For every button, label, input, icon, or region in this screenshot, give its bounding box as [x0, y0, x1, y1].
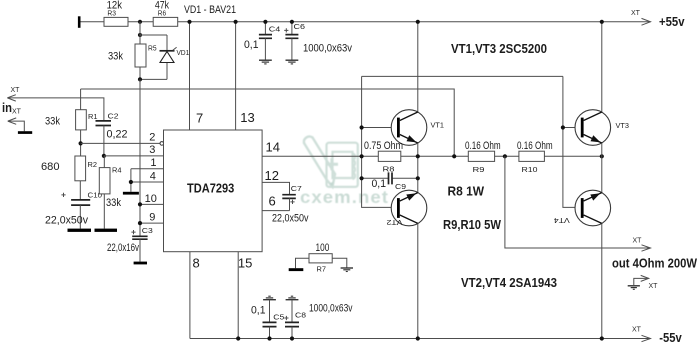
- junction dot pin7 rail: [187, 20, 191, 24]
- junction dot pin9: [138, 221, 142, 225]
- wire output: [505, 156, 651, 248]
- capacitor C9: [362, 177, 418, 179]
- svg-text:3: 3: [149, 144, 155, 156]
- svg-text:R5: R5: [148, 44, 157, 53]
- svg-text:VT1: VT1: [431, 120, 445, 129]
- WATERMARK: [300, 137, 389, 207]
- arrow -55v: [642, 335, 651, 341]
- svg-text:in: in: [2, 100, 12, 115]
- svg-text:22,0x16v: 22,0x16v: [107, 242, 139, 254]
- wire R9-R10: [495, 155, 519, 157]
- node R5 top: [138, 33, 142, 37]
- capacitor C7: [282, 195, 296, 199]
- svg-text:R3: R3: [107, 8, 116, 17]
- svg-text:22,0x50v: 22,0x50v: [272, 213, 309, 225]
- wire pin15: [237, 252, 239, 339]
- wire rail R3-R6: [128, 21, 153, 23]
- transistor Q VT3: [575, 110, 611, 146]
- wire R1 to pin2 node: [80, 130, 82, 156]
- svg-text:8: 8: [193, 255, 200, 270]
- ground R7 right: [341, 268, 353, 272]
- svg-text:C7: C7: [291, 184, 302, 193]
- diode VD1: [166, 35, 168, 79]
- svg-text:33k: 33k: [45, 116, 60, 128]
- wire VT1 base: [362, 127, 397, 129]
- svg-text:C9: C9: [395, 182, 406, 191]
- wire VT1 collector: [417, 22, 419, 112]
- svg-text:VD1 - BAV21: VD1 - BAV21: [184, 4, 236, 16]
- resistor R5: [135, 44, 146, 67]
- svg-text:0.16 Ohm: 0.16 Ohm: [517, 140, 553, 152]
- junction dot R8 left: [360, 154, 364, 158]
- capacitor C3: [131, 230, 135, 234]
- svg-text:C2: C2: [108, 112, 119, 121]
- svg-text:1: 1: [150, 157, 156, 169]
- wire R7 left: [296, 258, 310, 268]
- junction dot feedback tap: [452, 154, 456, 158]
- capacitor C10: [61, 193, 65, 197]
- wire pin6: [262, 210, 289, 212]
- watermark logo pencil tip: [330, 182, 334, 187]
- ground C4: [259, 60, 272, 64]
- svg-text:C4: C4: [269, 25, 281, 34]
- junction dot VT3/VT4 emitters: [600, 154, 604, 158]
- svg-text:0,22: 0,22: [107, 129, 128, 141]
- arrow input: [7, 95, 15, 101]
- resistor R1: [80, 89, 82, 110]
- transistor Q VT4: [575, 190, 611, 226]
- svg-text:C8: C8: [295, 310, 306, 319]
- wire VT3 emitter: [601, 143, 603, 193]
- wire R4 to ground: [103, 194, 105, 229]
- wire R2 to C10: [79, 181, 81, 200]
- svg-text:13: 13: [240, 110, 254, 125]
- junction dot VT3 collector rail: [600, 20, 604, 24]
- feedback wire y89: [81, 89, 455, 156]
- junction dot C6: [290, 20, 294, 24]
- svg-text:XT: XT: [12, 109, 22, 116]
- svg-text:12: 12: [265, 168, 279, 183]
- wire R7 right: [332, 258, 347, 267]
- arrow output ground: [641, 275, 649, 281]
- wire R5 bottom: [140, 67, 167, 79]
- wire VT2 collector: [417, 223, 419, 338]
- wire bottom rail: [190, 338, 651, 340]
- svg-text:C3: C3: [142, 226, 153, 235]
- ground C6: [286, 60, 299, 64]
- plus C6: [284, 28, 288, 32]
- resistor R10: [519, 151, 545, 161]
- svg-text:9: 9: [149, 212, 155, 224]
- wire R10 to emitters: [544, 155, 601, 157]
- svg-text:6: 6: [269, 194, 276, 209]
- wire top rail right: [178, 21, 651, 23]
- resistor R7: [309, 254, 332, 263]
- wire base column VT3/VT4: [563, 76, 581, 207]
- plus C8: [284, 316, 288, 320]
- wire output ground: [634, 278, 649, 285]
- svg-text:XT: XT: [631, 10, 641, 17]
- wire VT4 collector: [601, 223, 603, 338]
- junction dot R8 right: [416, 154, 420, 158]
- svg-text:VT3: VT3: [616, 121, 630, 130]
- resistor R8: [362, 155, 379, 157]
- svg-text:VT1,VT3 2SC5200: VT1,VT3 2SC5200: [451, 41, 547, 56]
- arrow input ground: [8, 118, 16, 124]
- wire pin1: [131, 168, 164, 170]
- node R5 bottom: [138, 77, 142, 81]
- svg-text:33k: 33k: [108, 51, 123, 63]
- wire VT3 collector: [601, 22, 603, 112]
- svg-text:R6: R6: [158, 8, 166, 17]
- junction dot rail/R5: [138, 20, 142, 24]
- resistor R6: [153, 17, 178, 26]
- wire input ground: [8, 121, 25, 131]
- junction dot pin4 gnd: [129, 180, 133, 184]
- svg-text:R9,R10 5W: R9,R10 5W: [443, 217, 502, 232]
- svg-text:TDA7293: TDA7293: [187, 181, 234, 196]
- transistor Q VT1: [391, 110, 427, 146]
- svg-text:XT: XT: [11, 87, 21, 94]
- capacitor C5: [263, 296, 276, 300]
- svg-text:R9: R9: [473, 165, 485, 174]
- junction dot C9 right: [416, 176, 420, 180]
- wire pin12: [262, 182, 289, 194]
- junction dot pin3 node: [102, 154, 106, 158]
- svg-text:7: 7: [196, 110, 203, 125]
- svg-text:R1: R1: [88, 112, 98, 121]
- svg-text:10: 10: [145, 193, 157, 205]
- svg-text:VD1: VD1: [177, 48, 190, 57]
- watermark logo chip inner: [333, 152, 353, 178]
- wire standby net x140: [139, 79, 141, 236]
- svg-text:1000,0x63v: 1000,0x63v: [303, 43, 352, 55]
- capacitor C8: [286, 296, 299, 300]
- ground R4: [95, 229, 118, 232]
- svg-text:33k: 33k: [106, 197, 121, 209]
- junction dot output tap: [503, 154, 507, 158]
- wire emitter column VT1/VT2: [417, 143, 419, 193]
- capacitor C6: [291, 22, 293, 34]
- resistor R2: [75, 156, 86, 181]
- svg-text:100: 100: [316, 242, 330, 254]
- svg-text:22,0x50v: 22,0x50v: [45, 215, 88, 227]
- ground pin1/4: [123, 192, 139, 195]
- wire top rail left: [81, 21, 105, 23]
- svg-text:R2: R2: [88, 160, 98, 169]
- ground input: [18, 131, 32, 134]
- svg-text:VT2,VT4 2SA1943: VT2,VT4 2SA1943: [461, 275, 557, 290]
- svg-text:4: 4: [150, 170, 156, 182]
- watermark logo cross: [326, 158, 338, 170]
- wire VT3 base: [563, 127, 581, 129]
- wire pin13 supply: [235, 22, 237, 130]
- watermark logo chip frame: [327, 143, 358, 187]
- capacitor C2: [96, 121, 112, 126]
- wire pin14 output: [262, 155, 362, 157]
- op-amp U1 TDA7293 body: [164, 130, 263, 252]
- arrow +55v: [642, 18, 651, 25]
- junction dot VT1 base: [360, 125, 364, 129]
- svg-text:14: 14: [266, 139, 280, 154]
- wire R5 top: [140, 22, 167, 44]
- svg-text:XT: XT: [649, 283, 659, 290]
- junction dot pin10: [138, 202, 142, 206]
- resistor R3: [104, 17, 128, 26]
- junction dot C9 left: [360, 176, 364, 180]
- junction dot pin13 rail: [234, 20, 238, 24]
- junction dot pin15 rail: [236, 336, 240, 340]
- wire pin8: [189, 252, 191, 339]
- svg-text:2: 2: [149, 132, 155, 144]
- ground C3: [134, 262, 147, 265]
- svg-text:0,1: 0,1: [251, 305, 266, 317]
- plus C7: [290, 200, 294, 204]
- resistor R4: [103, 156, 105, 168]
- junction dot VT1 collector rail: [416, 20, 420, 24]
- wire base column VT1/VT2: [362, 76, 397, 207]
- svg-text:0,1: 0,1: [372, 178, 387, 190]
- pin2 terminal circle: [160, 142, 164, 146]
- wire base drive: [362, 75, 563, 77]
- svg-text:0,1: 0,1: [244, 39, 259, 51]
- svg-text:680: 680: [41, 161, 60, 173]
- svg-text:cxem.net: cxem.net: [300, 187, 389, 207]
- junction dot pin2 node: [79, 141, 83, 145]
- junction dot C4: [263, 20, 267, 24]
- transistor Q VT2: [391, 190, 427, 226]
- svg-text:R7: R7: [317, 264, 327, 273]
- svg-text:VT2: VT2: [387, 218, 403, 227]
- svg-text:R8: R8: [383, 165, 395, 174]
- junction dot C8 rail: [290, 336, 294, 340]
- svg-text:out 4Ohm 200W: out 4Ohm 200W: [612, 256, 698, 271]
- wire pin4: [130, 181, 164, 183]
- ground R7 left: [289, 268, 304, 271]
- resistor R9: [468, 151, 494, 161]
- wire pin1/4 to ground: [130, 169, 132, 192]
- svg-text:XT: XT: [632, 326, 642, 333]
- svg-text:XT: XT: [633, 237, 643, 244]
- junction dot C5 rail: [267, 336, 271, 340]
- junction dot VT2 collector rail: [416, 336, 420, 340]
- wire input: [7, 98, 104, 121]
- junction dot VT3 base: [561, 125, 565, 129]
- svg-text:-55v: -55v: [659, 330, 682, 345]
- svg-text:C5: C5: [273, 313, 284, 322]
- watermark logo coil bumps: [353, 154, 355, 180]
- junction dot VT4 collector rail: [600, 336, 604, 340]
- svg-text:R4: R4: [112, 166, 122, 175]
- arrow output: [642, 245, 651, 251]
- svg-text:+55v: +55v: [659, 14, 685, 29]
- wire pin3: [104, 155, 164, 157]
- svg-text:0.16 Ohm: 0.16 Ohm: [465, 140, 501, 152]
- terminal bar X1: [78, 16, 81, 28]
- svg-text:C6: C6: [294, 22, 306, 31]
- wire pin7 supply: [189, 22, 191, 130]
- svg-text:VT4: VT4: [554, 216, 570, 225]
- watermark logo pencil: [304, 137, 335, 187]
- wire pin9: [140, 222, 164, 224]
- capacitor C4: [264, 22, 266, 34]
- wire pin2: [81, 142, 160, 144]
- svg-text:R8 1W: R8 1W: [448, 184, 485, 199]
- svg-text:0.75 Ohm: 0.75 Ohm: [364, 140, 403, 152]
- wire R8 right to R9: [401, 155, 469, 157]
- svg-text:1000,0x63v: 1000,0x63v: [309, 303, 353, 315]
- ground C10: [68, 229, 92, 232]
- svg-text:15: 15: [238, 255, 252, 270]
- ground output connector: [628, 286, 640, 290]
- wire pin10: [140, 203, 164, 205]
- svg-text:R10: R10: [522, 165, 538, 174]
